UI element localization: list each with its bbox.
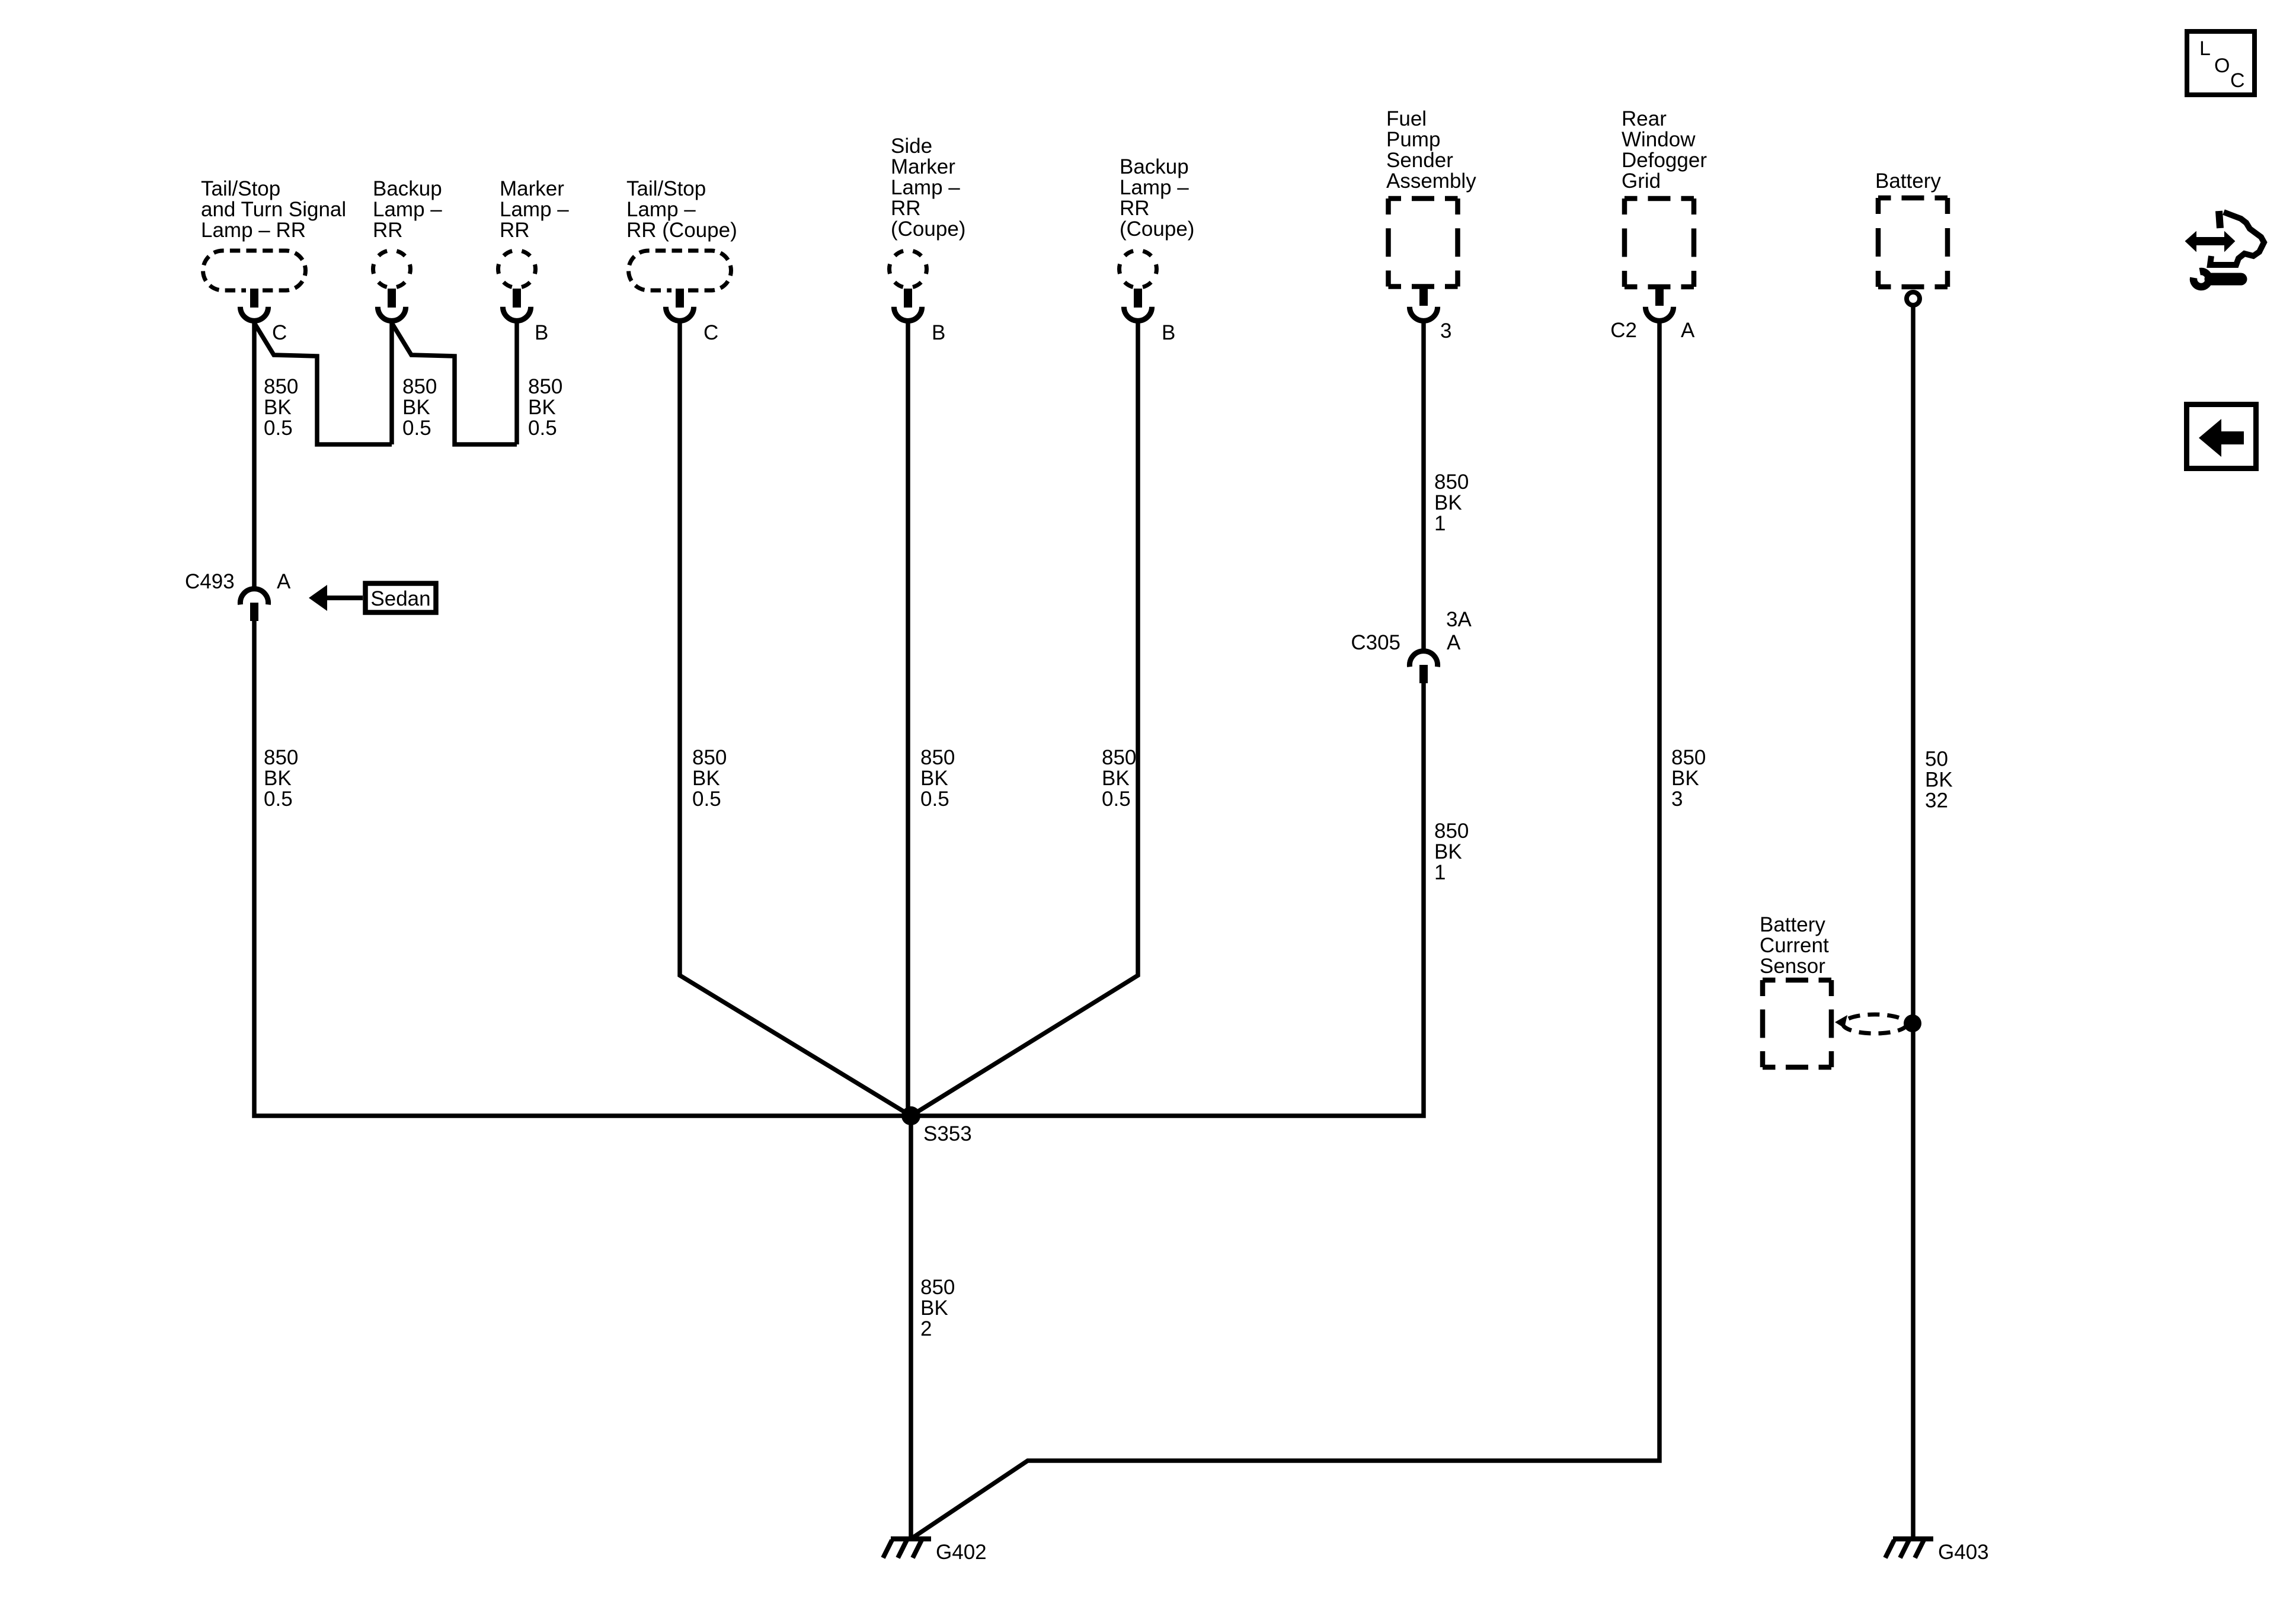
svg-text:2: 2 [920,1317,932,1340]
svg-text:Battery: Battery [1760,913,1825,936]
svg-text:C2: C2 [1610,319,1637,342]
svg-text:Tail/Stop: Tail/Stop [201,177,280,200]
svg-text:0.5: 0.5 [264,417,293,440]
svg-text:BK: BK [1434,491,1462,514]
svg-text:BK: BK [264,396,292,419]
svg-text:Fuel: Fuel [1386,107,1427,130]
svg-text:A: A [1681,319,1695,342]
svg-text:Assembly: Assembly [1386,169,1476,193]
svg-text:(Coupe): (Coupe) [1120,217,1194,241]
svg-text:BK: BK [920,767,948,790]
svg-text:L: L [2199,37,2211,60]
svg-text:RR (Coupe): RR (Coupe) [626,219,737,242]
svg-text:Lamp – RR: Lamp – RR [201,219,306,242]
svg-text:B: B [535,321,548,344]
svg-text:and Turn Signal: and Turn Signal [201,198,346,221]
svg-text:RR: RR [1120,197,1150,220]
svg-text:Marker: Marker [500,177,564,200]
svg-text:A: A [277,570,291,593]
svg-text:O: O [2214,55,2230,77]
svg-text:Rear: Rear [1622,107,1667,130]
svg-text:BK: BK [402,396,430,419]
svg-text:Lamp –: Lamp – [500,198,569,221]
svg-text:BK: BK [920,1297,948,1320]
svg-text:BK: BK [692,767,720,790]
svg-text:(Coupe): (Coupe) [891,217,965,241]
svg-text:850: 850 [692,746,727,769]
svg-text:Side: Side [891,135,932,158]
svg-text:850: 850 [528,375,562,398]
svg-text:3A: 3A [1446,608,1472,631]
svg-text:Lamp –: Lamp – [891,176,960,199]
svg-text:Defogger: Defogger [1622,149,1707,172]
svg-text:850: 850 [264,746,298,769]
svg-text:1: 1 [1434,512,1446,535]
svg-text:850: 850 [402,375,437,398]
svg-text:0.5: 0.5 [692,788,721,811]
svg-text:BK: BK [1925,769,1953,792]
svg-text:850: 850 [1434,820,1469,843]
svg-text:C: C [703,321,718,344]
svg-text:Sender: Sender [1386,149,1453,172]
svg-text:BK: BK [528,396,556,419]
svg-text:Lamp –: Lamp – [373,198,442,221]
svg-text:G402: G402 [936,1541,987,1564]
svg-text:Tail/Stop: Tail/Stop [626,177,706,200]
svg-text:0.5: 0.5 [264,788,293,811]
svg-text:Lamp –: Lamp – [1120,176,1189,199]
svg-text:S353: S353 [923,1122,972,1145]
svg-text:Lamp –: Lamp – [626,198,696,221]
svg-text:850: 850 [1434,470,1469,494]
svg-text:Backup: Backup [373,177,442,200]
svg-text:BK: BK [1434,840,1462,863]
svg-text:RR: RR [500,219,530,242]
svg-text:C: C [2230,69,2245,92]
svg-text:A: A [1447,631,1461,654]
svg-text:Pump: Pump [1386,128,1440,151]
svg-text:Current: Current [1760,934,1829,957]
svg-text:Sedan: Sedan [370,587,430,610]
svg-text:1: 1 [1434,861,1446,884]
svg-text:0.5: 0.5 [920,788,949,811]
svg-text:Marker: Marker [891,155,955,178]
svg-text:50: 50 [1925,748,1948,771]
svg-text:850: 850 [264,375,298,398]
svg-text:Grid: Grid [1622,169,1661,193]
svg-text:32: 32 [1925,789,1948,812]
svg-text:Battery: Battery [1875,169,1941,193]
svg-text:0.5: 0.5 [528,417,557,440]
svg-text:BK: BK [1102,767,1130,790]
svg-text:850: 850 [1671,746,1706,769]
svg-text:Sensor: Sensor [1760,955,1825,978]
svg-text:C: C [272,321,287,344]
svg-text:Window: Window [1622,128,1696,151]
svg-text:850: 850 [920,746,955,769]
svg-text:B: B [1162,321,1175,344]
svg-text:G403: G403 [1938,1541,1989,1564]
svg-text:850: 850 [920,1276,955,1299]
svg-text:BK: BK [264,767,292,790]
svg-text:RR: RR [373,219,403,242]
svg-text:B: B [932,321,945,344]
svg-text:3: 3 [1440,319,1451,343]
svg-text:850: 850 [1102,746,1136,769]
svg-text:Backup: Backup [1120,155,1189,178]
svg-text:C493: C493 [185,570,235,593]
svg-text:0.5: 0.5 [402,417,431,440]
svg-text:C305: C305 [1351,631,1400,654]
svg-text:0.5: 0.5 [1102,788,1131,811]
svg-text:BK: BK [1671,767,1699,790]
svg-text:3: 3 [1671,788,1683,811]
svg-text:RR: RR [891,197,921,220]
